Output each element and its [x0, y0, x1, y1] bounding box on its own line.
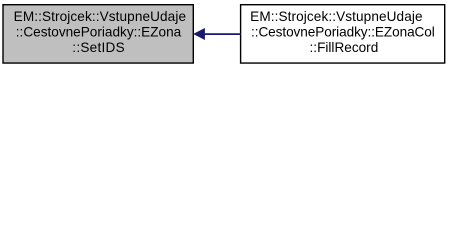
node Node1: EM::Strojcek::VstupneUdaje::CestovnePoriadky::EZona::SetIDS (current node, grey): [3, 5, 193, 63]
wire: call edge Node2 -> Node1 (midnightblue): [194, 29, 240, 39]
svg-text:EM::Strojcek::VstupneUdaje: EM::Strojcek::VstupneUdaje: [14, 8, 187, 24]
svg-text:::CestovnePoriadky::EZonaCol: ::CestovnePoriadky::EZonaCol: [251, 23, 435, 39]
node Node2: EM::Strojcek::VstupneUdaje::CestovnePoriadky::EZonaCol::FillRecord: [241, 5, 445, 63]
svg-text:::FillRecord: ::FillRecord: [310, 39, 379, 55]
svg-text:EM::Strojcek::VstupneUdaje: EM::Strojcek::VstupneUdaje: [250, 8, 423, 24]
svg-text:::SetIDS: ::SetIDS: [72, 39, 125, 55]
arrowhead: [194, 29, 204, 39]
svg-text:::CestovnePoriadky::EZona: ::CestovnePoriadky::EZona: [16, 23, 182, 39]
